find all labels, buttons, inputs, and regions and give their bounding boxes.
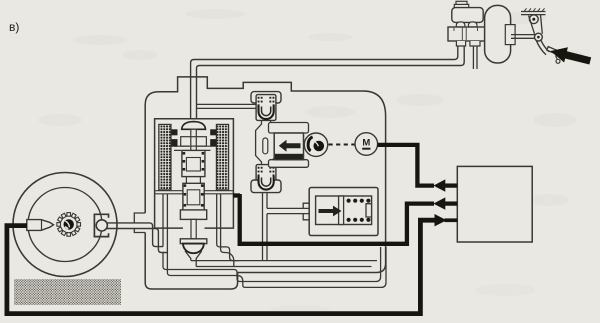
- svg-text:M: M: [362, 137, 370, 148]
- pushrod clevis joint: [535, 33, 543, 41]
- pump flow arrow: [279, 140, 301, 152]
- modulator housing outline: [145, 77, 385, 289]
- wire: wheel sensor to ECU: [7, 220, 435, 313]
- accumulator spring cup: [366, 204, 372, 217]
- svg-text:в): в): [9, 20, 19, 34]
- figure label в): [9, 20, 19, 34]
- valve lower chamber walls: [163, 194, 238, 276]
- pipe: valve outlet return line: [191, 261, 377, 267]
- piston connecting bore: [186, 177, 200, 184]
- solenoid coil left: [159, 124, 171, 189]
- wheel rim: [28, 188, 102, 262]
- sensor toothed ring: [57, 213, 81, 237]
- pedal mount plate: [521, 8, 546, 14]
- master cylinder outlet ports: [456, 41, 480, 46]
- armature hatch squares: [172, 129, 217, 146]
- electric motor M: [355, 133, 378, 156]
- eccentric drive circle: [304, 133, 327, 156]
- vacuum booster: [485, 5, 511, 63]
- pedal pad: [547, 47, 562, 64]
- pipe: branch to pump inlet: [197, 104, 257, 108]
- pedal bracket to clevis: [529, 15, 543, 34]
- inlet boss on housing for caliper pipe: [134, 213, 145, 233]
- pipe: master cylinder to modulator: [191, 46, 465, 119]
- lower valve piston: [180, 183, 206, 219]
- ECU box: [457, 166, 532, 242]
- pedal pivot: [529, 15, 538, 24]
- motor coupling dashed line: [329, 144, 356, 146]
- accumulator piston: [339, 196, 344, 225]
- pipe: pump outlet down to return: [263, 193, 268, 261]
- pipe: pump to accumulator: [267, 203, 309, 220]
- booster rear shell: [505, 25, 515, 45]
- brake caliper: [94, 214, 108, 236]
- wheel hub: [63, 219, 73, 229]
- wheel speed sensor: [27, 220, 54, 231]
- pump chamber (hourglass): [256, 120, 277, 165]
- solenoid coil right: [216, 124, 228, 189]
- armature T flange: [181, 137, 207, 146]
- solenoid valve body: [155, 119, 234, 228]
- booster pushrod: [511, 35, 535, 39]
- accumulator inlet arrow: [319, 206, 342, 217]
- pump piston cylinder flanges: [269, 123, 309, 168]
- accumulator cylinder: [316, 196, 372, 225]
- pipe stub: second master cylinder circuit: [473, 46, 477, 69]
- force arrow at pedal: [549, 43, 593, 68]
- outlet poppet valve (bottom umbrella): [180, 219, 207, 266]
- arrow into ECU from sensor: [435, 214, 458, 226]
- brake fluid reservoir cap: [454, 1, 468, 8]
- arrow from ECU to valve wire: [433, 197, 445, 209]
- wire: ECU to motor: [378, 145, 458, 186]
- arrow from ECU to motor wire: [433, 179, 445, 191]
- brake pedal arm: [536, 40, 549, 55]
- master cylinder body: [448, 27, 488, 41]
- wheel tire: [13, 173, 117, 277]
- pipe: chamber to return line step: [234, 247, 386, 287]
- pipe: caliper to modulator and down: [107, 223, 167, 253]
- wheel cylinder: [96, 220, 107, 231]
- accumulator housing: [309, 188, 378, 236]
- pump outlet check valve: [251, 165, 281, 193]
- inlet poppet valve (top umbrella): [182, 122, 206, 151]
- pump inlet check valve: [251, 92, 281, 121]
- accumulator spring: [347, 199, 371, 222]
- reservoir necks: [456, 22, 477, 27]
- pump piston cylinder: [274, 133, 303, 160]
- wire: ECU to solenoid valve: [233, 194, 457, 244]
- brake fluid reservoir: [452, 8, 483, 23]
- upper valve piston: [182, 150, 205, 176]
- road surface hatch: [14, 279, 121, 305]
- valve internal bore walls: [155, 146, 233, 194]
